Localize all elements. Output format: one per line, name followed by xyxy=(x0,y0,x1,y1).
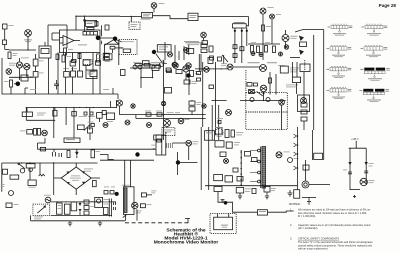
resistor R117 xyxy=(70,61,75,66)
wire xyxy=(257,91,263,96)
wire xyxy=(102,25,120,44)
diode D101 box xyxy=(105,54,113,60)
anode cap E301 xyxy=(302,181,309,188)
wire xyxy=(153,16,189,19)
ground xyxy=(302,198,316,205)
resistor R201 xyxy=(95,22,98,27)
resistor R316 xyxy=(303,165,309,170)
capacitor C305 xyxy=(301,117,307,121)
AC source B601 xyxy=(45,197,51,203)
wire xyxy=(268,211,294,212)
diode D301 xyxy=(299,36,304,42)
wire xyxy=(156,54,162,62)
resistor R115 xyxy=(21,75,28,81)
connector J303 xyxy=(201,32,207,38)
regulator U602 xyxy=(258,210,268,215)
CRT V601 dashed xyxy=(210,214,236,234)
wire xyxy=(123,160,152,221)
resistor R315 xyxy=(269,78,272,83)
pin circles xyxy=(258,149,261,152)
wire xyxy=(350,189,360,191)
coil L202 xyxy=(186,49,193,54)
test point TP2 xyxy=(259,53,263,57)
resistor R120 xyxy=(3,40,7,45)
wire xyxy=(54,163,62,195)
connector J304 xyxy=(298,95,310,112)
wire bus xyxy=(248,43,280,45)
transistor Q201 xyxy=(168,52,173,57)
resistor R503 xyxy=(93,181,97,187)
wire long vertical xyxy=(163,64,165,140)
resistor R403 xyxy=(176,70,182,74)
resistor R402 xyxy=(167,70,172,73)
resistor R313 xyxy=(233,54,237,58)
resistor R416 xyxy=(34,128,37,135)
wire border bus xyxy=(2,58,118,94)
capacitor C604 xyxy=(264,187,270,193)
ground xyxy=(238,193,242,199)
connector P501 pinout xyxy=(327,67,352,78)
wire xyxy=(9,58,49,94)
transistor Q207 xyxy=(204,67,210,73)
wire xyxy=(9,49,36,51)
resistor R410 xyxy=(197,78,201,81)
transistor Q406 xyxy=(42,130,48,136)
capacitor C201 dashed xyxy=(129,22,140,29)
flyback T301 xyxy=(300,64,310,72)
resistor R211 xyxy=(142,61,149,65)
svg-text:+165 V: +165 V xyxy=(351,138,359,141)
vertical module X401 dashed box xyxy=(246,93,287,113)
resistor R605 xyxy=(84,211,89,215)
resistor R312 xyxy=(233,45,237,49)
resistor R103 box xyxy=(86,20,97,26)
wire xyxy=(130,68,189,95)
focus divider R512 xyxy=(245,152,251,157)
wire contrast taps xyxy=(235,28,247,63)
resistor R105 xyxy=(72,60,77,63)
capacitor C206 xyxy=(165,88,172,94)
test point TP9 xyxy=(224,159,229,164)
capacitor C202 xyxy=(96,61,101,65)
pot R212 xyxy=(159,63,163,67)
resistor R425 xyxy=(218,121,221,124)
capacitor C504 xyxy=(226,142,232,148)
wire xyxy=(99,53,101,95)
connector P301 pinout xyxy=(327,46,352,57)
label xyxy=(248,61,260,64)
resistor R304 xyxy=(251,46,254,53)
capacitor C605 xyxy=(353,195,356,198)
wire rail xyxy=(297,127,299,190)
resistor R107 xyxy=(10,80,13,87)
lamp DS401 xyxy=(164,120,171,127)
resistor R210 xyxy=(156,65,161,68)
wire rails xyxy=(54,108,90,139)
diode D405 xyxy=(110,191,114,195)
node 11 xyxy=(186,73,190,77)
fuse F501 xyxy=(26,164,35,168)
resistor R501 xyxy=(67,151,70,158)
capacitor C102 xyxy=(54,80,59,90)
wire xyxy=(222,55,228,64)
relay K101 xyxy=(39,46,51,58)
wire xyxy=(260,147,262,189)
transistor Q205 xyxy=(186,63,192,69)
connector J302 xyxy=(270,14,275,19)
plug P501 xyxy=(3,169,8,174)
wire bus2 xyxy=(51,214,112,216)
wire top bus xyxy=(76,16,120,31)
node 12 xyxy=(263,93,265,95)
resistor R414 xyxy=(90,112,93,115)
connector J101 xyxy=(6,69,12,75)
resistor R306 xyxy=(265,46,268,53)
wire xyxy=(313,35,315,130)
capacitor C101 dashed xyxy=(83,60,92,65)
capacitor C404 xyxy=(102,110,106,114)
resistor R109 xyxy=(33,72,38,78)
capacitor C505 xyxy=(214,175,223,181)
resistor R408 xyxy=(254,83,258,86)
capacitor C405 xyxy=(189,101,195,105)
test point TP3 xyxy=(279,52,283,56)
resistor R606 xyxy=(104,208,109,215)
transistor Q410 xyxy=(125,120,130,125)
transistor Q407 xyxy=(103,123,108,128)
node 3 xyxy=(15,82,20,87)
label xyxy=(30,88,36,91)
yoke plug chevrons xyxy=(294,134,297,170)
coil L201 xyxy=(188,13,198,20)
transistor Q501 xyxy=(186,140,192,146)
power transformer T601 xyxy=(124,187,135,215)
title block text xyxy=(154,227,219,245)
horiz output loop xyxy=(156,135,166,155)
svg-text:NOTES:: NOTES: xyxy=(289,202,301,206)
resistor R116 xyxy=(105,25,109,30)
test point TP7 xyxy=(250,98,254,102)
resistor R421 xyxy=(146,113,151,116)
diode D601 xyxy=(79,203,82,212)
regulator U601 xyxy=(95,197,103,207)
coil L501 xyxy=(205,131,215,141)
svg-text:Page 28: Page 28 xyxy=(379,3,397,8)
resistor R602 xyxy=(71,202,77,211)
contrast control R302 xyxy=(234,22,245,23)
resistor R106 xyxy=(97,54,100,62)
wire xyxy=(115,47,123,49)
label xyxy=(133,61,141,64)
transistor Q502 xyxy=(276,152,282,158)
coil L301 xyxy=(314,153,323,159)
resistor R214 xyxy=(208,58,213,64)
connector P701 pinout xyxy=(327,88,352,99)
resistor R413 xyxy=(84,112,87,115)
resistor R309 xyxy=(201,49,207,53)
capacitor C502 xyxy=(59,153,62,157)
transistor Q202 xyxy=(184,48,189,53)
resistor R213 xyxy=(166,68,171,72)
transistor Q301 xyxy=(282,35,289,42)
transistor Q405 xyxy=(260,85,267,92)
svg-text:Monochrome Video Monitor: Monochrome Video Monitor xyxy=(154,240,219,246)
capacitor C506 xyxy=(225,176,233,182)
connector J201 xyxy=(151,3,157,9)
coil L502 xyxy=(157,139,161,142)
wire xyxy=(26,108,55,121)
wire xyxy=(218,202,258,212)
resistor R419 xyxy=(91,124,94,127)
wire xyxy=(76,163,100,195)
diode D503 xyxy=(348,162,351,166)
transistor Q401 xyxy=(173,63,179,69)
wire xyxy=(11,84,15,94)
svg-text:3.: 3. xyxy=(290,237,292,241)
transistor Q102 xyxy=(24,64,30,70)
resistor R102 xyxy=(64,48,67,55)
transistor Q402 xyxy=(183,66,189,72)
wire xyxy=(140,67,155,69)
wire xyxy=(290,57,300,59)
resistor R113 xyxy=(56,54,59,60)
resistor R308 xyxy=(201,44,207,48)
resistor R209 xyxy=(150,65,155,68)
node 10 xyxy=(163,118,165,120)
resistor R202 xyxy=(110,46,115,49)
resistor R504 xyxy=(225,130,229,138)
transistor Q411 xyxy=(147,123,152,128)
wire xyxy=(100,38,122,46)
capacitor C603 xyxy=(114,202,116,210)
transistor Q206 xyxy=(172,62,177,67)
wire xyxy=(109,199,111,217)
neon NE502 xyxy=(29,168,33,172)
resistor R505b xyxy=(6,203,12,208)
capacitor C401 xyxy=(53,110,57,116)
resistor R405 xyxy=(121,70,126,76)
resistor R426 xyxy=(154,135,162,140)
svg-text:1.: 1. xyxy=(290,208,292,212)
capacitor C507 xyxy=(348,172,352,174)
resistor R418 xyxy=(77,125,84,130)
diode D302 xyxy=(299,50,304,56)
wire xyxy=(5,49,9,51)
ground xyxy=(265,192,269,199)
wire stub xyxy=(113,88,118,99)
connector P801 pinout (filled) xyxy=(359,89,389,102)
wire xyxy=(84,100,117,140)
resistor R608 xyxy=(236,188,244,194)
resistor R104 xyxy=(62,55,65,62)
resistor R314 xyxy=(240,47,244,51)
transistor Q409 xyxy=(226,110,232,116)
diode bridge D403 xyxy=(249,90,255,94)
capacitor C509 xyxy=(220,152,226,157)
resistor R311 xyxy=(300,42,307,47)
wire buses xyxy=(120,115,206,119)
node 6 xyxy=(176,160,180,164)
wire xyxy=(38,138,156,149)
resistor R511 xyxy=(237,177,243,182)
wire xyxy=(306,130,313,181)
node 2 xyxy=(113,37,118,42)
resistor R407 xyxy=(247,83,252,87)
test point TP1 xyxy=(251,52,255,56)
resistor R502 xyxy=(91,150,95,158)
resistor R208 xyxy=(163,60,167,64)
flyback transformer T502 winding xyxy=(262,147,266,189)
transistor Q408 xyxy=(178,118,184,124)
fuse F502 on bus xyxy=(40,147,45,151)
capacitor C508 xyxy=(364,171,368,173)
photocell X501 dashed xyxy=(215,129,223,137)
wire stub xyxy=(25,88,28,94)
wire xyxy=(217,192,219,203)
capacitor C301 xyxy=(210,56,214,60)
resistor R110 xyxy=(64,72,70,78)
transistor Q101 xyxy=(16,62,22,68)
regulator U401 xyxy=(64,138,80,143)
capacitor C403 xyxy=(97,113,103,119)
resistor R301 xyxy=(202,41,208,45)
diode D402 xyxy=(138,65,142,69)
resistor R310 xyxy=(209,46,213,52)
test point TP11 xyxy=(279,100,285,106)
transistor Q403 xyxy=(227,64,233,70)
capacitor C511 xyxy=(167,143,172,148)
transistor Q503 xyxy=(288,158,293,163)
test point TP6 xyxy=(202,104,206,108)
thermistor RT501 xyxy=(39,174,45,176)
resistor R206 xyxy=(144,64,150,67)
wire xyxy=(48,25,67,48)
diode D602 xyxy=(141,193,146,197)
capacitor C303 xyxy=(301,103,307,107)
diode D603 box xyxy=(214,187,222,192)
node 7 xyxy=(115,192,119,196)
capacitor C602 xyxy=(64,204,70,214)
wire rail extensions xyxy=(203,108,216,128)
pot R412 xyxy=(22,112,32,117)
svg-text:with an exact replacement.: with an exact replacement. xyxy=(298,247,329,251)
pot R207 vert hold xyxy=(157,45,171,52)
wire xyxy=(205,185,298,187)
resistor R409 xyxy=(197,72,201,75)
resistor R505 xyxy=(231,130,235,137)
wire xyxy=(100,143,198,175)
wire xyxy=(195,67,286,101)
test point TP8 xyxy=(266,98,270,102)
diode D102 xyxy=(83,20,86,23)
resistor R427 xyxy=(88,128,93,133)
label xyxy=(103,88,109,91)
svg-text:(pF = picofarads).: (pF = picofarads). xyxy=(298,226,318,230)
resistor R112 xyxy=(78,71,83,77)
wire xyxy=(293,62,297,94)
resistor R607 xyxy=(140,204,145,208)
op-amp U101 module xyxy=(60,30,101,53)
resistor R204 xyxy=(103,57,109,60)
ground xyxy=(288,190,293,196)
capacitor C103 xyxy=(3,24,8,29)
notes text block xyxy=(289,202,373,251)
wire xyxy=(270,72,276,95)
connector P201 pinout xyxy=(362,24,388,35)
capacitor C501 xyxy=(53,149,56,156)
neon NE501 xyxy=(20,169,24,173)
wire xyxy=(198,16,249,18)
wire rails xyxy=(199,54,201,72)
svg-text:M = 1,000,000).: M = 1,000,000). xyxy=(298,214,316,218)
capacitor C503 xyxy=(215,141,224,147)
wire winding taps xyxy=(240,150,242,185)
connector J301 xyxy=(260,8,266,14)
wire xyxy=(303,72,305,131)
resistor R406 xyxy=(184,80,190,84)
node 4 xyxy=(152,50,156,54)
switch SW501 xyxy=(19,164,25,169)
connector P401 pinout xyxy=(361,46,388,57)
diode D504 xyxy=(365,162,368,166)
resistor R415 xyxy=(27,130,33,135)
wire xyxy=(263,20,272,60)
resistor R101 xyxy=(8,52,11,59)
node 5 xyxy=(135,152,139,156)
node 1 xyxy=(96,36,101,41)
wire xyxy=(246,17,248,26)
ground xyxy=(98,221,102,226)
resistor R513 xyxy=(252,158,258,162)
wire xyxy=(130,17,132,23)
wire rails xyxy=(201,127,209,190)
wire xyxy=(309,184,330,186)
capacitor C510 xyxy=(233,168,238,172)
capacitor C302 xyxy=(218,57,222,61)
resistor R422 xyxy=(157,113,162,116)
transistor Q504 xyxy=(360,178,367,185)
connector P101 pinout xyxy=(328,24,353,35)
wire xyxy=(165,42,189,62)
wire rails xyxy=(203,62,216,108)
transistor Q601 xyxy=(132,202,138,208)
resistor R609 xyxy=(252,189,256,194)
capacitor C406 xyxy=(189,107,195,111)
resistor R411 xyxy=(209,85,214,89)
resistor R305 xyxy=(257,46,260,53)
wire right edge xyxy=(118,40,120,65)
resistor R307 xyxy=(273,46,276,53)
wire xyxy=(52,33,60,40)
wire dashed return xyxy=(125,222,190,224)
node 8 xyxy=(224,201,228,205)
delay line DL101 xyxy=(83,32,98,36)
transistor Q404 xyxy=(260,65,267,72)
wire main bus xyxy=(26,107,117,109)
line filter FL501 xyxy=(28,180,36,186)
coil L401 xyxy=(280,66,288,73)
resistor R203 xyxy=(103,53,109,56)
svg-text:2.: 2. xyxy=(290,223,292,227)
resistor R420 xyxy=(107,113,115,120)
resistor R205 xyxy=(135,64,142,67)
resistor R119 xyxy=(90,71,97,77)
wire xyxy=(4,29,6,50)
capacitor C304 xyxy=(301,110,307,114)
wire AC bus xyxy=(2,163,98,192)
resistor R401 xyxy=(152,66,159,71)
wire rails xyxy=(212,105,219,140)
